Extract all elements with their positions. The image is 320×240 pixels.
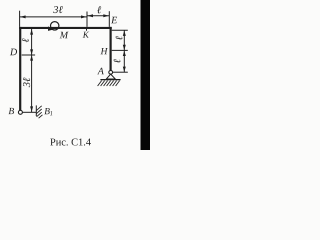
tick at K below beam <box>86 29 88 31</box>
arrowhead 3l right <box>81 15 87 18</box>
label K (node K) <box>83 32 90 38</box>
right column member (E to A) <box>110 27 112 71</box>
arrowhead left dim down at rod <box>30 106 33 111</box>
label B1 (wall anchor) <box>44 108 52 115</box>
caption: figure number <box>50 139 91 146</box>
label 3l rotated (left dim lower) <box>23 78 30 88</box>
arrowhead left dim up from D tick <box>30 55 33 60</box>
label 3l (top dimension) <box>53 6 63 13</box>
pin circle at A <box>109 70 113 74</box>
arrowhead l right at E <box>103 14 109 17</box>
extension line at left corner (top) <box>19 11 21 27</box>
arrowhead 3l left <box>20 15 26 18</box>
wall hatching at B1 <box>37 106 43 118</box>
extension line at K <box>86 12 88 27</box>
label D (node D) <box>10 49 17 56</box>
label H (node H) <box>100 48 107 54</box>
left dimension line upper segment l <box>31 29 33 55</box>
label l (top right dimension) <box>97 6 101 13</box>
label A (support A) <box>97 68 104 75</box>
left dimension line lower segment 3l <box>31 55 33 112</box>
arrowhead right dim seg2 down <box>123 67 126 72</box>
black scan bar on right edge <box>141 0 151 150</box>
wall line at B1 <box>35 105 37 116</box>
pin circle at B <box>18 110 22 114</box>
dimension line l (top right) <box>87 15 109 17</box>
arrowhead left dim down to D tick <box>30 49 33 54</box>
right dimension line lower l <box>123 50 125 72</box>
support triangle at A <box>106 74 115 79</box>
label E (node E) <box>111 17 117 24</box>
ground line at A <box>100 79 120 80</box>
beam D-K-E: top horizontal member <box>19 27 112 29</box>
extension line at E (above beam) <box>108 11 110 27</box>
arrowhead l left at K <box>88 14 94 17</box>
tick at D level <box>22 54 35 56</box>
arrowhead right dim seg2 up <box>123 51 126 56</box>
moment M circular arrow <box>51 22 59 30</box>
label B (support B) <box>8 108 14 114</box>
moment M arrowhead <box>48 26 53 31</box>
dimension line 3l (top) <box>20 16 87 18</box>
support rod B to wall B1 <box>23 111 37 113</box>
right extension line at E level <box>112 29 128 31</box>
arrowhead left dim up (below beam) <box>30 29 33 34</box>
arrowhead right dim seg1 up <box>123 31 126 36</box>
label l rotated (right dim lower) <box>114 59 121 63</box>
right dimension line upper l <box>123 30 125 50</box>
label l rotated (left dim upper) <box>22 38 29 42</box>
label l rotated (right dim upper) <box>116 36 123 40</box>
arrowhead right dim seg1 down <box>123 45 126 50</box>
label M (moment) <box>60 32 69 39</box>
left column member (corner to B) <box>19 27 21 111</box>
ground hatching at A <box>98 81 120 86</box>
right extension line at H level <box>112 49 128 51</box>
right extension line at A level <box>113 71 128 73</box>
